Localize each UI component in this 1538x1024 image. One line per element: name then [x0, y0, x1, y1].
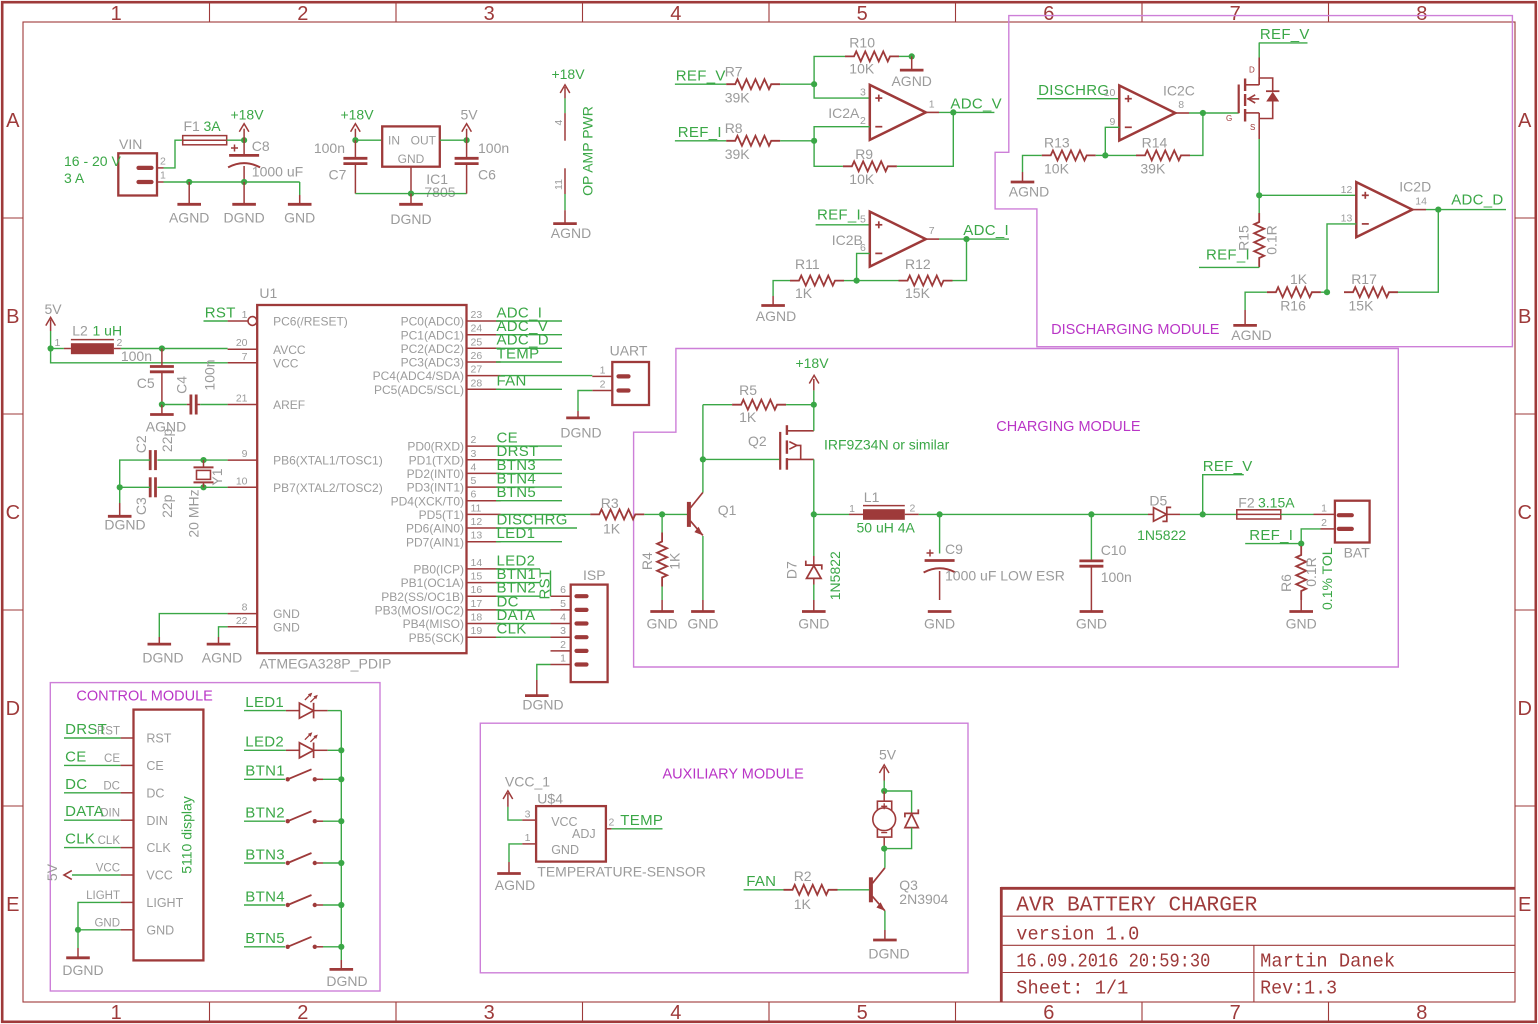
svg-text:GND: GND [273, 620, 300, 634]
wire IC2C output to gate node [1175, 112, 1189, 114]
U1 left pin 20 AVCC [228, 348, 258, 350]
node AVCC/C5 junction [159, 345, 165, 351]
svg-text:RST: RST [205, 305, 236, 322]
svg-text:10K: 10K [849, 61, 875, 77]
wire junction to R5 [702, 405, 704, 460]
ground GND (input) [299, 182, 301, 195]
op-amp IC2B [870, 212, 926, 267]
U1 right pin 26 PC3(ADC3) [467, 361, 501, 363]
wire junction to IC2C inverting input [1105, 127, 1119, 155]
wire R7 to IC2A+ [780, 83, 814, 85]
resistor R10 10K [845, 51, 899, 61]
svg-text:8: 8 [1178, 99, 1184, 111]
svg-text:CHARGING MODULE: CHARGING MODULE [996, 419, 1141, 435]
ground AGND (U1 pin22) [218, 637, 220, 644]
svg-text:R10: R10 [849, 34, 875, 50]
svg-text:DGND: DGND [104, 517, 145, 533]
svg-text:DGND: DGND [62, 962, 103, 978]
wire R11 left to AGND [773, 281, 790, 296]
svg-text:23: 23 [471, 309, 483, 321]
svg-text:2: 2 [910, 503, 916, 515]
temperature sensor U$4 [536, 806, 606, 862]
voltage regulator IC1 7805 [382, 126, 440, 166]
U1 right pin 17 PB3(MOSI/OC2) [467, 609, 501, 611]
wire R17 feedback to ADC_D node [1321, 291, 1327, 293]
capacitor C6 100n [466, 140, 468, 158]
wire U1 pin8 GND to DGND [159, 614, 227, 637]
svg-text:24: 24 [471, 323, 483, 335]
resistor R11 1K [790, 276, 844, 286]
ground AGND (C5) [161, 405, 163, 415]
bus junction [338, 860, 344, 866]
U1 left pin 7 VCC [228, 362, 258, 364]
svg-text:D7: D7 [784, 561, 800, 579]
svg-text:8: 8 [242, 602, 248, 614]
svg-text:TEMP: TEMP [620, 812, 663, 829]
ISP pin 6 [577, 594, 587, 598]
wire XTAL2 net [157, 486, 227, 488]
svg-text:6: 6 [560, 584, 566, 596]
svg-text:AGND: AGND [495, 877, 535, 893]
svg-text:DGND: DGND [223, 210, 264, 226]
capacitor C5 100n [161, 349, 163, 367]
node R7/R10 junction [811, 81, 817, 87]
ground DGND (display) [77, 930, 79, 948]
svg-text:C: C [6, 502, 20, 524]
svg-text:1: 1 [525, 832, 531, 844]
U1 right pin 4 PD2(INT0) [467, 472, 501, 474]
ground AGND (R13) [1022, 172, 1024, 182]
svg-text:26: 26 [471, 350, 483, 362]
ground GND (D7) [813, 600, 815, 612]
svg-text:Rev:1.3: Rev:1.3 [1260, 978, 1337, 1000]
svg-text:GND: GND [647, 615, 678, 631]
svg-text:1: 1 [160, 170, 166, 182]
svg-text:G: G [1226, 114, 1232, 123]
svg-text:21: 21 [236, 393, 248, 405]
svg-text:10K: 10K [849, 171, 875, 187]
svg-text:R12: R12 [905, 256, 931, 272]
svg-text:3.15A: 3.15A [1258, 494, 1295, 510]
svg-text:18: 18 [471, 612, 483, 624]
svg-text:5: 5 [857, 1002, 868, 1024]
svg-text:PD4(XCK/T0): PD4(XCK/T0) [391, 494, 464, 508]
svg-text:VCC: VCC [146, 869, 172, 883]
wire VIN pin1 ground bus [164, 181, 300, 183]
svg-text:1: 1 [600, 364, 606, 376]
svg-text:R6: R6 [1278, 574, 1294, 592]
svg-text:AREF: AREF [273, 398, 305, 412]
wire 5V to AVCC/VCC [50, 331, 52, 349]
U1 right pin 5 PD3(INT1) [467, 486, 501, 488]
svg-text:3: 3 [484, 1002, 495, 1024]
svg-text:16: 16 [471, 584, 483, 596]
U1 right pin 14 PB0(ICP) [467, 568, 501, 570]
svg-text:7805: 7805 [424, 184, 455, 200]
svg-text:DIN: DIN [146, 814, 168, 828]
svg-text:BTN5: BTN5 [245, 930, 285, 947]
motor/fan symbol [883, 791, 885, 801]
microcontroller U1 ATMEGA328P_PDIP [257, 305, 466, 653]
svg-text:PD3(INT1): PD3(INT1) [407, 481, 464, 495]
svg-text:E: E [6, 894, 19, 916]
resistor R4 1K (vertical) [661, 514, 663, 532]
svg-text:17: 17 [471, 598, 483, 610]
resistor R16 1K [1267, 287, 1321, 297]
svg-text:+18V: +18V [340, 107, 374, 123]
svg-text:GND: GND [284, 210, 315, 226]
svg-text:20 MHz: 20 MHz [186, 489, 202, 537]
net label REF_I (discharge) [1258, 266, 1260, 268]
resistor R5 1K [703, 404, 732, 406]
ISP pin 2 [577, 649, 587, 653]
svg-text:IC2C: IC2C [1163, 82, 1195, 98]
node Q2 source / L1 / D7 junction [811, 511, 817, 517]
inductor L1 50uH 4A [849, 513, 863, 515]
svg-text:CE: CE [146, 759, 163, 773]
svg-text:A: A [1518, 110, 1532, 132]
svg-text:+18V: +18V [795, 355, 829, 371]
svg-text:ADJ: ADJ [572, 827, 596, 841]
svg-text:1N5822: 1N5822 [1137, 527, 1186, 543]
ISP pin 4 [577, 621, 587, 625]
svg-text:2: 2 [297, 1002, 308, 1024]
svg-text:13: 13 [471, 530, 483, 542]
svg-text:BTN1: BTN1 [245, 763, 285, 780]
svg-text:3: 3 [484, 3, 495, 25]
svg-text:PB1(OC1A): PB1(OC1A) [401, 576, 464, 590]
display pin LIGHT [121, 901, 134, 903]
bus junction [338, 944, 344, 950]
svg-text:4: 4 [560, 612, 566, 624]
svg-text:IC2B: IC2B [832, 232, 863, 248]
svg-text:BTN3: BTN3 [245, 846, 285, 863]
svg-text:GND: GND [273, 607, 300, 621]
node C5/C4/AGND junction [159, 401, 165, 407]
node fan 5V junction [881, 788, 887, 794]
svg-text:PC0(ADC0): PC0(ADC0) [401, 315, 464, 329]
svg-text:BTN4: BTN4 [245, 888, 285, 905]
svg-text:DATA: DATA [65, 803, 104, 820]
svg-text:D: D [6, 698, 20, 720]
junction dot AGND tap [186, 179, 192, 185]
svg-text:R2: R2 [794, 868, 812, 884]
junction dot at C6 [464, 137, 470, 143]
wire D5 to REF_V node [1180, 513, 1237, 515]
node R13/R14 junction [1102, 152, 1108, 158]
svg-text:AGND: AGND [202, 650, 242, 666]
svg-text:GND: GND [924, 615, 955, 631]
svg-text:R9: R9 [855, 146, 873, 162]
svg-text:100n: 100n [121, 348, 152, 364]
capacitor C10 100n [1090, 514, 1092, 561]
wire VCC_1 to U$4 pin3 [508, 807, 522, 820]
wire R3 to Q1 base [644, 513, 687, 515]
wire U1 pin27 to UART pin1 [501, 375, 593, 377]
svg-text:C8: C8 [252, 138, 270, 154]
svg-text:CE: CE [65, 748, 86, 765]
svg-text:B: B [1518, 306, 1531, 328]
svg-text:FAN: FAN [746, 873, 776, 890]
svg-text:100n: 100n [1101, 569, 1132, 585]
power symbol +18V (input) [243, 129, 245, 141]
ground AGND (R10) [911, 56, 913, 70]
ground AGND (R16) [1244, 310, 1246, 325]
IC1 GND pin wire [410, 167, 412, 194]
wire F2 to BAT pin1 [1281, 513, 1314, 515]
svg-text:R14: R14 [1142, 134, 1168, 150]
node C10 junction [1088, 511, 1094, 517]
wire R11 to IC2B- node [844, 280, 857, 282]
wire C9 node to D5 [940, 513, 1148, 515]
fuse F2 3.15A [1237, 510, 1281, 519]
wire R16 to AGND [1245, 292, 1267, 310]
control module boundary [50, 683, 380, 991]
svg-text:PC6(/RESET): PC6(/RESET) [273, 315, 348, 329]
svg-text:1: 1 [1321, 503, 1327, 515]
net label FAN (aux) [744, 889, 784, 891]
ground AGND (R11) [772, 296, 774, 306]
capacitor C8 1000 uF [243, 140, 245, 155]
U1 right pin 28 PC5(ADC5/SCL) [467, 388, 501, 390]
svg-text:PC1(ADC1): PC1(ADC1) [401, 328, 464, 342]
resistor R13 10K [1042, 150, 1096, 160]
svg-text:UART: UART [610, 343, 648, 359]
power symbol +18V (charging) [813, 390, 815, 404]
discharge MOSFET (N-channel) [1238, 85, 1240, 114]
svg-text:27: 27 [471, 364, 483, 376]
svg-text:C7: C7 [329, 167, 347, 183]
svg-text:LED1: LED1 [245, 694, 284, 711]
svg-text:AVCC: AVCC [273, 343, 306, 357]
svg-text:REF_I: REF_I [678, 124, 722, 141]
svg-text:GND: GND [1076, 615, 1107, 631]
op-amp IC2D [1356, 182, 1412, 237]
svg-text:PD1(TXD): PD1(TXD) [409, 453, 464, 467]
svg-text:PC4(ADC4/SDA): PC4(ADC4/SDA) [373, 369, 464, 383]
net label RST at ISP pin6 (vertical) [550, 571, 552, 597]
svg-text:15K: 15K [905, 285, 931, 301]
svg-text:12: 12 [1341, 184, 1353, 196]
node +18V junction at C8 [241, 137, 247, 143]
svg-text:2: 2 [609, 816, 615, 828]
svg-text:7: 7 [1230, 1002, 1241, 1024]
svg-text:2: 2 [297, 3, 308, 25]
U1 right pin 11 PD5(T1) [467, 513, 501, 515]
svg-text:C4: C4 [174, 376, 190, 394]
svg-text:GND: GND [1286, 615, 1317, 631]
svg-text:R11: R11 [795, 256, 820, 272]
node motor/diode/collector junction [881, 846, 887, 852]
svg-text:2: 2 [471, 434, 477, 446]
svg-text:CLK: CLK [98, 835, 121, 847]
svg-text:IC2D: IC2D [1399, 179, 1431, 195]
svg-text:7: 7 [929, 225, 935, 237]
wire R5 to +18V node [786, 404, 814, 406]
net label REF_V (charging) [1203, 475, 1244, 515]
svg-text:15K: 15K [1349, 297, 1375, 313]
wire R10 to AGND [899, 55, 912, 57]
op-amp IC2A [870, 85, 926, 140]
wire ISP pin1 to DGND [537, 665, 551, 681]
svg-text:PD5(T1): PD5(T1) [419, 508, 464, 522]
ground DGND (crystal) [119, 487, 121, 503]
capacitor C4 100n (AREF) [162, 404, 187, 406]
svg-text:39K: 39K [725, 90, 751, 106]
svg-text:PC2(ADC2): PC2(ADC2) [401, 342, 464, 356]
svg-text:VIN: VIN [119, 136, 142, 152]
wire junction down to IC2A non-inverting input [814, 84, 870, 98]
node ADC_V junction [950, 109, 956, 115]
svg-text:BTN2: BTN2 [245, 805, 285, 822]
svg-text:3: 3 [471, 448, 477, 460]
junction dot at C7 [352, 137, 358, 143]
wire Q2 source down to L1 node [813, 459, 815, 514]
transistor Q1 [687, 502, 691, 527]
U1 right pin 23 PC0(ADC0) [467, 320, 501, 322]
wire R2 to Q3 base [838, 889, 870, 891]
U1 right pin 3 PD1(TXD) [467, 459, 501, 461]
wire VIN pin2 to fuse F1 [164, 140, 183, 168]
svg-text:+18V: +18V [551, 66, 585, 82]
svg-text:0.1R: 0.1R [1303, 557, 1319, 587]
display pin DC [121, 792, 134, 794]
svg-text:REF_I: REF_I [1249, 527, 1293, 544]
svg-text:VCC_1: VCC_1 [505, 773, 550, 789]
svg-text:22p: 22p [159, 494, 175, 518]
svg-text:REF_V: REF_V [1203, 458, 1253, 475]
flyback diode (fan) [884, 791, 911, 813]
svg-text:PB2(SS/OC1B): PB2(SS/OC1B) [381, 590, 464, 604]
wire U$4 pin1 to AGND [522, 843, 536, 845]
node IC2C output junction [1200, 110, 1206, 116]
ISP pin 5 [577, 608, 587, 612]
wire IC2A output to ADC_V [926, 111, 939, 113]
net label REF_V (discharge) [1259, 42, 1308, 44]
U1 left pin 22 GND [228, 626, 258, 628]
resistor R12 15K [899, 276, 953, 286]
node REF_I junction [1298, 541, 1304, 547]
wire IC1 OUT to 5V [440, 139, 467, 141]
svg-text:CLK: CLK [65, 831, 95, 848]
U1 right pin 25 PC2(ADC2) [467, 347, 501, 349]
svg-text:RST: RST [537, 569, 554, 600]
svg-text:GND: GND [687, 615, 718, 631]
ISP pin 3 [577, 635, 587, 639]
node +18V / Q2 drain junction [811, 402, 817, 408]
svg-text:16 - 20 V: 16 - 20 V [64, 153, 121, 169]
node LIGHT/GND junction [75, 927, 81, 933]
svg-text:LIGHT: LIGHT [86, 890, 120, 902]
svg-text:2: 2 [1321, 517, 1327, 529]
svg-text:11: 11 [553, 179, 565, 190]
svg-text:REF_I: REF_I [817, 207, 861, 224]
svg-text:Q2: Q2 [748, 433, 767, 449]
wire display GND [78, 929, 121, 931]
svg-text:DC: DC [65, 776, 87, 793]
svg-text:R16: R16 [1280, 297, 1306, 313]
U1 right pin 2 PD0(RXD) [467, 445, 501, 447]
svg-text:1K: 1K [794, 896, 812, 912]
wire R4 to GND [661, 587, 663, 601]
wire IC2B inverting input down [857, 253, 870, 280]
svg-text:R3: R3 [601, 495, 619, 511]
diode D5 1N5822 (output) [1148, 513, 1154, 515]
svg-text:1K: 1K [795, 285, 813, 301]
svg-text:9: 9 [242, 448, 248, 460]
wire IC2A feedback to R9 [897, 112, 953, 166]
svg-text:R7: R7 [725, 64, 743, 80]
svg-text:A: A [6, 110, 20, 132]
svg-text:1: 1 [111, 1002, 122, 1024]
svg-text:2N3904: 2N3904 [899, 891, 948, 907]
svg-text:GND: GND [398, 152, 425, 166]
svg-text:2: 2 [600, 379, 606, 391]
ground DGND (buttons) [340, 947, 342, 960]
bus junction [338, 747, 344, 753]
wire +18V to IC1 IN [355, 139, 382, 141]
svg-text:C3: C3 [133, 497, 149, 515]
wire regulator ground bus [355, 193, 466, 195]
svg-text:5: 5 [471, 475, 477, 487]
svg-text:C10: C10 [1101, 542, 1127, 558]
svg-text:LIGHT: LIGHT [146, 896, 183, 910]
wire Q1 collector up [702, 459, 704, 492]
svg-text:16.09.2016 20:59:30: 16.09.2016 20:59:30 [1016, 951, 1210, 973]
title block border [1001, 887, 1515, 890]
svg-text:1000 uF: 1000 uF [252, 164, 303, 180]
svg-text:DGND: DGND [868, 945, 909, 961]
wire junction up to IC2A- pin [814, 127, 870, 141]
svg-text:DGND: DGND [522, 697, 563, 713]
svg-text:1: 1 [242, 309, 248, 321]
svg-text:GND: GND [94, 917, 120, 929]
svg-text:Sheet: 1/1: Sheet: 1/1 [1016, 978, 1128, 1000]
svg-text:5V: 5V [879, 747, 897, 763]
svg-text:25: 25 [471, 336, 483, 348]
svg-text:AVR BATTERY CHARGER: AVR BATTERY CHARGER [1016, 895, 1257, 918]
crystal Y1 20 MHz [203, 460, 205, 467]
wire IC2B output to ADC_I [926, 238, 939, 240]
svg-text:L1: L1 [864, 489, 880, 505]
resistor R8 39K [726, 136, 780, 146]
svg-text:PC3(ADC3): PC3(ADC3) [401, 356, 464, 370]
wire MOSFET source down to sense node [1258, 113, 1260, 139]
transistor Q2 IRF9Z34N (P-MOSFET) [779, 432, 781, 470]
inductor L2 1uH [64, 348, 71, 350]
svg-text:ADC_I: ADC_I [963, 222, 1009, 239]
U1 left pin 21 AREF [228, 404, 258, 406]
wire L2 to AVCC pin20 [121, 348, 228, 350]
svg-text:REF_V: REF_V [676, 68, 726, 85]
svg-text:100n: 100n [478, 140, 509, 156]
wire Q2 drain to +18V [813, 405, 815, 431]
wire button/LED common bus [340, 711, 342, 947]
svg-text:R13: R13 [1044, 134, 1070, 150]
node C3/DGND junction [117, 484, 123, 490]
wire display LIGHT to DGND [78, 902, 121, 929]
wire 5V to L2 [51, 348, 64, 350]
wire motor bottom to collector node [883, 837, 885, 849]
svg-text:PD6(AIN0): PD6(AIN0) [406, 522, 464, 536]
capacitor C3 22p [149, 477, 152, 497]
svg-text:IN: IN [388, 134, 400, 148]
svg-text:IRF9Z34N or similar: IRF9Z34N or similar [824, 437, 950, 453]
bus junction [338, 818, 344, 824]
node R10 right junction [909, 53, 915, 59]
ISP pin 1 [577, 662, 587, 666]
charging module boundary [634, 349, 1399, 668]
